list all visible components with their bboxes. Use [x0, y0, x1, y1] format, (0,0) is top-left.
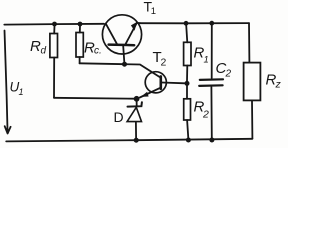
svg-text:z: z — [275, 79, 282, 91]
svg-text:R: R — [30, 38, 41, 55]
wire top rail right segment — [140, 22, 249, 24]
node dot I (R2 to rail) — [186, 138, 191, 143]
node dot B (rail to Rc) — [78, 22, 83, 27]
transistor T2 — [145, 72, 166, 93]
node dot H (zener to rail) — [134, 138, 139, 143]
svg-text:2: 2 — [202, 109, 209, 121]
resistor R2 — [186, 86, 188, 99]
diode D (zener) — [136, 101, 138, 106]
wire T2 base to divider node — [162, 82, 185, 85]
node dot C (rail to R1) — [184, 21, 189, 26]
svg-text:1: 1 — [151, 6, 156, 17]
voltage arrow U1 — [5, 31, 11, 134]
resistor Rd — [53, 26, 55, 34]
svg-text:c.: c. — [94, 46, 102, 57]
svg-text:2: 2 — [225, 69, 232, 80]
wire bottom rail — [6, 139, 252, 142]
svg-text:1: 1 — [204, 55, 209, 66]
node dot E (T1 base) — [122, 62, 127, 67]
capacitor C2 — [211, 25, 213, 78]
resistor R1 — [186, 25, 187, 42]
wire Rc bottom to T2 (T1 base node) — [80, 63, 161, 78]
svg-text:1: 1 — [19, 87, 24, 97]
svg-text:d: d — [41, 46, 47, 57]
transistor T1 — [102, 15, 141, 54]
node circle G (zener top, open) — [134, 96, 139, 101]
node dot J (C2 to rail) — [209, 138, 214, 143]
svg-text:2: 2 — [161, 57, 167, 69]
resistor Rz (load) — [248, 23, 250, 63]
node dot D (rail to C2) — [209, 21, 214, 26]
svg-text:D: D — [114, 109, 124, 125]
node dot F (divider) — [185, 81, 190, 86]
wire top rail left segment — [4, 23, 104, 26]
node dot A (rail to Rd) — [52, 22, 57, 27]
wire Rd bottom to zener node — [54, 97, 134, 100]
resistor Rc — [79, 26, 81, 33]
